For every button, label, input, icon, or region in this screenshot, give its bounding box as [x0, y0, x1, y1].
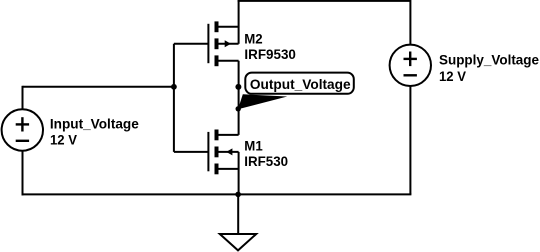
- wire input horizontal: [23, 86, 174, 88]
- wire M2 gate lead: [174, 43, 209, 45]
- svg-text:IRF9530: IRF9530: [244, 46, 296, 62]
- svg-text:M2: M2: [244, 31, 263, 47]
- wire gate rail vertical: [173, 44, 175, 152]
- node Output_Voltage callout box: [245, 73, 353, 94]
- svg-text:Supply_Voltage: Supply_Voltage: [439, 52, 539, 68]
- wire M1 source down to bottom rail: [238, 152, 240, 195]
- junction dot gate node: [171, 84, 177, 90]
- node Output_Voltage callout tail: [236, 94, 288, 111]
- wire left upper (input top): [22, 86, 24, 110]
- wire ground stem: [237, 194, 239, 234]
- svg-text:12 V: 12 V: [439, 68, 467, 84]
- wire right upper (supply top): [409, 0, 411, 45]
- transistor M1 IRF530 n-channel mosfet: [208, 130, 238, 175]
- wire left lower (input bottom): [22, 150, 24, 195]
- svg-text:M1: M1: [244, 137, 263, 153]
- svg-text:12 V: 12 V: [50, 132, 78, 148]
- transistor M2 IRF9530 p-channel mosfet: [208, 21, 238, 66]
- wire M1 gate lead: [174, 151, 209, 153]
- voltage source Input_Voltage: [2, 109, 43, 150]
- svg-text:Input_Voltage: Input_Voltage: [50, 115, 139, 131]
- wire bottom rail: [22, 193, 412, 195]
- ground: [220, 234, 256, 250]
- junction dot ground node: [235, 192, 241, 198]
- wire right lower (supply bottom to bottom rail): [409, 85, 411, 194]
- voltage source Supply_Voltage: [390, 45, 431, 86]
- wire top rail: [238, 0, 411, 2]
- svg-text:Output_Voltage: Output_Voltage: [250, 76, 351, 92]
- svg-text:IRF530: IRF530: [244, 153, 288, 169]
- junction dot output node: [235, 84, 241, 90]
- wire output node riser (M2 source to M1 drain): [238, 61, 240, 135]
- wire M2 drain riser to top rail: [238, 0, 240, 44]
